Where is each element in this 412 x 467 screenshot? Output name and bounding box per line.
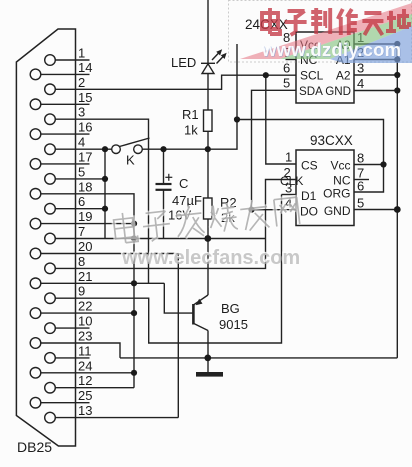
wire pin24 to bus [41, 372, 134, 374]
svg-text:16: 16 [78, 120, 92, 135]
svg-text:K: K [126, 153, 135, 168]
center watermark chars (white underlay) [113, 193, 300, 246]
svg-text:17: 17 [78, 149, 92, 164]
svg-text:CS: CS [301, 159, 318, 173]
red watermark char zuo [338, 9, 358, 35]
red watermark char dian [262, 8, 280, 34]
93CXX pin names [280, 159, 351, 219]
svg-text:ORG: ORG [323, 187, 350, 201]
svg-text:22: 22 [78, 299, 92, 314]
svg-text:2: 2 [284, 165, 291, 180]
wire pin4 to switch [55, 148, 111, 150]
wire pin7 to R2 bottom and CLK vertical [55, 238, 265, 240]
capacitor C leads [163, 149, 165, 184]
wire pin16 stub [41, 133, 90, 135]
svg-text:5: 5 [78, 164, 85, 179]
wire pin6 [55, 208, 105, 210]
svg-text:6: 6 [283, 61, 290, 76]
24CXX pin names [299, 38, 351, 98]
pin 23 circle [30, 338, 41, 349]
wire pin12 to bus bottom [55, 387, 134, 389]
pin 15 circle [30, 99, 41, 110]
wire pin19 [41, 223, 134, 225]
pin 22 circle [30, 308, 41, 319]
ground symbol [196, 372, 223, 377]
svg-text:6: 6 [78, 194, 85, 209]
svg-text:10: 10 [78, 314, 92, 329]
wire pin20 to long vertical [41, 254, 179, 418]
pin 18 circle [30, 189, 41, 200]
93CXX D1 stub corner [282, 194, 297, 196]
plus sign [165, 176, 172, 178]
svg-text:9015: 9015 [219, 317, 248, 332]
wire pin13 long [55, 417, 178, 419]
wire pin25 stub [41, 402, 90, 404]
pin 2 circle [45, 84, 56, 95]
svg-text:Vcc: Vcc [330, 159, 350, 173]
svg-text:23: 23 [78, 329, 92, 344]
svg-text:D1: D1 [301, 189, 317, 203]
ground stub [207, 358, 209, 372]
ground rail [120, 357, 397, 359]
svg-text:LED: LED [171, 55, 196, 70]
svg-text:BG: BG [221, 301, 240, 316]
wire pin8 to corner up [55, 239, 265, 269]
svg-text:GND: GND [324, 204, 351, 218]
pin 20 circle [30, 248, 41, 259]
svg-text:SDA: SDA [299, 85, 323, 98]
svg-text:3: 3 [78, 105, 85, 120]
svg-text:24: 24 [78, 358, 92, 373]
svg-text:1k: 1k [184, 123, 198, 138]
center watermark chars (gray outline) [113, 193, 300, 246]
pin 1 circle [45, 55, 56, 66]
svg-text:www.elecfans.com: www.elecfans.com [121, 247, 300, 269]
wire switch to Vcc corner [143, 44, 238, 149]
pin 8 circle [45, 263, 56, 274]
svg-text:SCL: SCL [300, 69, 324, 83]
right ground rail vertical [396, 44, 398, 358]
svg-text:C: C [179, 176, 188, 191]
svg-text:4: 4 [78, 135, 85, 150]
svg-text:8: 8 [357, 151, 364, 166]
pin 21 circle [30, 278, 41, 289]
watermark top-right dzdiy block [229, 1, 412, 64]
resistor R2 [204, 198, 213, 219]
93CXX CLK wire down to R2 bottom row [266, 180, 297, 239]
wire pin23 with jog down to ground rail [41, 343, 120, 358]
IC U2 93CXX box [296, 150, 354, 226]
vertical pins4-5-6 to wire7 [104, 149, 106, 238]
24CXX right stubs [354, 43, 397, 45]
svg-text:1: 1 [285, 150, 292, 165]
pin 11 circle [45, 353, 56, 364]
93CXX right GND stub [354, 209, 397, 211]
pin 3 circle [45, 114, 56, 125]
svg-text:21: 21 [78, 269, 92, 284]
24CXX SDA wire [252, 90, 297, 209]
93CXX right ORG stub with corner up [237, 120, 384, 193]
pin 4 circle [45, 144, 56, 155]
svg-text:7: 7 [78, 224, 85, 239]
93CXX right NC stub [354, 179, 369, 181]
svg-text:11: 11 [78, 343, 92, 358]
wire pin21 to jog [41, 282, 165, 284]
pin 6 circle [45, 203, 56, 214]
pin 13 circle [45, 412, 56, 423]
svg-text:4: 4 [357, 76, 364, 91]
watermark center elecfans [113, 193, 300, 246]
svg-text:3: 3 [285, 181, 292, 196]
svg-text:93CXX: 93CXX [310, 133, 353, 148]
svg-text:19: 19 [78, 209, 92, 224]
pin 19 circle [30, 218, 41, 229]
svg-text:15: 15 [78, 90, 92, 105]
pin 12 circle [45, 382, 56, 393]
jog down to base lead [164, 283, 193, 313]
red watermark char zhi [311, 8, 330, 34]
svg-text:A2: A2 [336, 69, 351, 83]
93CXX right Vcc stub [354, 164, 384, 166]
emitter diagonal with arrow [194, 295, 208, 305]
LED D1 [201, 62, 215, 64]
svg-text:8: 8 [78, 254, 85, 269]
pin 7 circle [45, 233, 56, 244]
svg-text:DO: DO [300, 205, 318, 219]
pin 24 circle [30, 368, 41, 379]
wire pin17 stub [41, 163, 90, 165]
93CXX DO wire [252, 209, 297, 211]
svg-text:20: 20 [78, 239, 92, 254]
svg-text:DB25: DB25 [17, 439, 52, 455]
wire pin10 stub [55, 327, 89, 329]
switch K [112, 145, 121, 154]
collector diagonal [194, 324, 208, 331]
wire pin9 down and right to D1/DO vertical [55, 195, 281, 344]
pin 10 circle [45, 323, 56, 334]
collector to ground rail [207, 331, 209, 358]
DB25 connector outline [16, 29, 75, 446]
LED vertical from top edge [207, 0, 209, 63]
wire pin18 to bus [41, 194, 134, 388]
wire pin5 [55, 178, 105, 180]
svg-text:13: 13 [78, 403, 92, 418]
resistor R1 [204, 110, 213, 131]
svg-text:9: 9 [78, 284, 85, 299]
svg-text:18: 18 [78, 179, 92, 194]
svg-text:5: 5 [283, 76, 290, 91]
svg-text:14: 14 [78, 60, 92, 75]
wire R1 to R2 [207, 131, 209, 198]
wire pin2 to step [55, 75, 296, 89]
wire pin1 stub [55, 59, 89, 61]
IC U1 24CXX box [296, 32, 354, 103]
red watermark char zi [285, 11, 307, 35]
93CXX pin numbers [284, 150, 365, 211]
svg-text:12: 12 [78, 373, 92, 388]
svg-text:www.dzdiy.com: www.dzdiy.com [261, 39, 401, 60]
wire LED to R1 [207, 74, 209, 111]
pin 16 circle [30, 129, 41, 140]
red watermark char tian [362, 13, 383, 35]
svg-text:47µF: 47µF [172, 193, 202, 208]
pin 25 circle [30, 397, 41, 408]
pin 14 circle [30, 69, 41, 80]
capacitor C plates [156, 183, 172, 185]
svg-text:GND: GND [325, 85, 351, 98]
wire pin11 stub [55, 357, 89, 359]
svg-text:2: 2 [78, 75, 85, 90]
24CXX pin7 NC stub [286, 59, 297, 61]
pin 17 circle [30, 159, 41, 170]
red watermark char di [386, 9, 409, 31]
svg-text:R1: R1 [182, 107, 199, 122]
pin 5 circle [45, 174, 56, 185]
wire pin22 to bus [41, 312, 134, 314]
24CXX pin numbers [283, 30, 364, 91]
wire pin14 stub [41, 73, 90, 75]
svg-text:25: 25 [78, 388, 92, 403]
svg-text:1: 1 [78, 46, 85, 61]
wire R2 to collector vertical [207, 219, 209, 295]
svg-text:5: 5 [357, 196, 364, 211]
transistor Q1 BG9015 bar [192, 304, 195, 325]
svg-text:6: 6 [357, 179, 364, 194]
wire pin15 stub [41, 103, 90, 105]
CS vertical from SCL to 93CXX CS [266, 75, 296, 164]
svg-text:NC: NC [333, 174, 351, 188]
pin 9 circle [45, 293, 56, 304]
wire pin3 to vertical [55, 119, 148, 283]
labels: DB25 pin numbers [78, 46, 92, 419]
